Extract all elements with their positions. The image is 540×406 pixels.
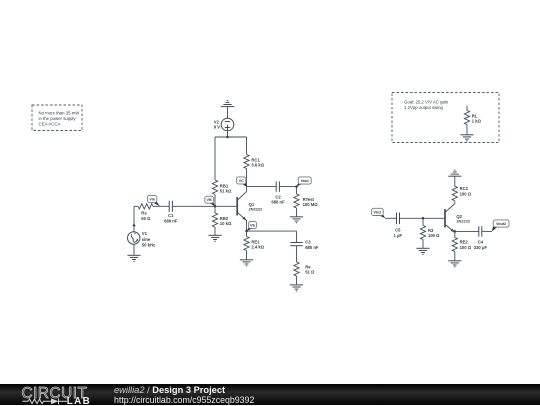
svg-text:100 Ω: 100 Ω: [460, 191, 472, 196]
svg-text:330 μF: 330 μF: [474, 245, 488, 250]
svg-text:Vin2: Vin2: [374, 210, 382, 214]
svg-text:9 V: 9 V: [214, 125, 220, 130]
svg-text:1.2Vpp output swing: 1.2Vpp output swing: [404, 105, 444, 110]
svg-text:100 Ω: 100 Ω: [428, 233, 440, 238]
svg-text:680 nF: 680 nF: [164, 218, 178, 223]
svg-text:CEA->CCA: CEA->CCA: [39, 121, 61, 126]
svg-text:VE: VE: [250, 223, 255, 227]
svg-text:LAB: LAB: [67, 395, 91, 405]
svg-text:1 kΩ: 1 kΩ: [472, 119, 482, 124]
svg-text:Vout2: Vout2: [496, 222, 506, 226]
svg-text:Vin: Vin: [149, 198, 155, 202]
svg-text:100 Ω: 100 Ω: [460, 245, 472, 250]
svg-text:Goal: 25.2 V/V AC gain: Goal: 25.2 V/V AC gain: [404, 100, 449, 105]
svg-text:V2: V2: [214, 119, 220, 124]
svg-text:680 nF: 680 nF: [271, 200, 285, 205]
svg-text:+: +: [134, 231, 136, 235]
svg-text:51 kΩ: 51 kΩ: [220, 189, 232, 194]
svg-text:10 kΩ: 10 kΩ: [220, 221, 232, 226]
svg-text:VC: VC: [239, 179, 244, 183]
svg-text:51 Ω: 51 Ω: [305, 270, 315, 275]
svg-text:3.6 kΩ: 3.6 kΩ: [251, 163, 264, 168]
svg-text:Rs: Rs: [141, 211, 147, 216]
svg-text:Vout: Vout: [301, 179, 310, 183]
svg-text:V1: V1: [142, 231, 148, 236]
svg-text:2.4 kΩ: 2.4 kΩ: [251, 245, 264, 250]
svg-text:1 μF: 1 μF: [393, 233, 402, 238]
svg-text:680 nF: 680 nF: [305, 245, 319, 250]
svg-text:2N2222: 2N2222: [249, 206, 263, 211]
svg-text:VB: VB: [207, 198, 212, 202]
svg-text:sine: sine: [142, 237, 151, 242]
svg-text:in the power supply: in the power supply: [39, 116, 77, 121]
svg-text:50 Ω: 50 Ω: [141, 216, 151, 221]
svg-text:100 MΩ: 100 MΩ: [303, 202, 319, 207]
svg-text:No more than 35 mW: No more than 35 mW: [39, 110, 81, 115]
svg-text:2N2222: 2N2222: [456, 219, 470, 224]
svg-text:50 kHz: 50 kHz: [142, 243, 155, 248]
